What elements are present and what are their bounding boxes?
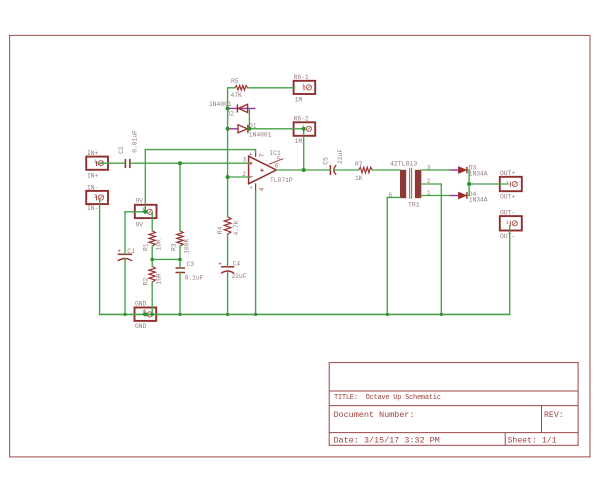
node D1 right junction xyxy=(247,127,251,131)
connector IN- xyxy=(86,184,108,212)
wire D3 pin segment (magenta) xyxy=(450,169,458,171)
node rail R2 junction xyxy=(151,313,154,316)
svg-text:IN+: IN+ xyxy=(87,173,99,180)
wire node to OUT+ xyxy=(469,183,508,185)
wire 9V up to V+ corner xyxy=(144,150,146,212)
connector IN+ xyxy=(86,150,108,180)
svg-text:C3: C3 xyxy=(187,261,195,268)
svg-text:0.1uF: 0.1uF xyxy=(185,275,204,282)
svg-text:OUT-: OUT- xyxy=(500,233,515,240)
svg-text:9V: 9V xyxy=(136,198,144,205)
svg-text:R6-2: R6-2 xyxy=(294,115,309,122)
node R3/C3 junction xyxy=(178,258,182,262)
svg-text:4.7K: 4.7K xyxy=(233,220,240,235)
svg-text:TR1: TR1 xyxy=(408,202,420,209)
svg-text:6: 6 xyxy=(275,163,279,170)
wire divider node horizontal xyxy=(152,258,180,260)
node D1 left junction xyxy=(226,127,230,131)
connector 9V xyxy=(135,198,157,229)
svg-text:GND: GND xyxy=(135,301,147,308)
wire R1 bottom to R2 top xyxy=(151,246,153,266)
wire ground rail xyxy=(100,313,510,315)
svg-text:22uF: 22uF xyxy=(232,273,247,280)
svg-text:TL071P: TL071P xyxy=(270,177,293,184)
wire IN- down to ground rail xyxy=(99,199,101,315)
node rail center-tap junction xyxy=(440,313,443,316)
svg-text:47K: 47K xyxy=(231,92,243,99)
node rail C1 junction xyxy=(123,313,126,316)
svg-text:IN+: IN+ xyxy=(87,150,99,157)
svg-text:4: 4 xyxy=(258,187,265,191)
wire R3 bottom to node xyxy=(179,246,181,268)
wire D1 pin segment (magenta) xyxy=(229,128,238,130)
wire transformer pin3 to D3 xyxy=(421,169,450,171)
node D3/D4/OUT+ junction xyxy=(467,182,471,186)
wire D1 to R6-2 xyxy=(249,128,304,130)
svg-text:R3: R3 xyxy=(170,243,177,251)
node rail C4 junction xyxy=(226,313,229,316)
svg-text:Document Number:: Document Number: xyxy=(334,410,415,420)
wire IN+ to C2 xyxy=(98,162,125,164)
wire V+ horizontal to op-amp pin7 xyxy=(145,150,255,153)
capacitor C4 22uF (polarized) xyxy=(218,260,247,280)
wire transformer center tap to rail xyxy=(421,184,441,314)
wire C4 bottom to rail xyxy=(227,272,229,314)
wire transformer pin1 to D4 xyxy=(421,195,450,197)
svg-text:10K: 10K xyxy=(156,273,163,285)
wire C1 top xyxy=(124,212,126,254)
wire C3 bottom to ground rail xyxy=(179,273,181,315)
wire 9V pin to C1 branch xyxy=(125,211,145,213)
node pin3/R3 junction xyxy=(178,161,182,165)
svg-text:Sheet: 1/1: Sheet: 1/1 xyxy=(508,436,557,446)
svg-text:C1: C1 xyxy=(127,248,135,255)
svg-text:R4: R4 xyxy=(217,226,224,234)
svg-text:C4: C4 xyxy=(233,260,241,267)
node rail TR pin6 junction xyxy=(386,313,389,316)
transformer TR1 42TL013 xyxy=(389,161,431,209)
wire 9V pin to R1 top xyxy=(151,212,153,231)
node rail C3 junction xyxy=(178,313,181,316)
svg-text:R2: R2 xyxy=(143,277,150,285)
svg-text:OUT-: OUT- xyxy=(500,209,515,216)
svg-text:1N34A: 1N34A xyxy=(469,171,488,178)
capacitor C3 0.1uF xyxy=(176,261,204,282)
node D2 left junction xyxy=(226,106,230,110)
svg-text:IC1: IC1 xyxy=(269,150,281,157)
svg-text:IN-: IN- xyxy=(87,184,98,191)
resistor R4 4.7K xyxy=(217,217,240,236)
wire R5 to R6-1 xyxy=(248,87,295,89)
svg-text:+: + xyxy=(117,248,121,255)
svg-text:100K: 100K xyxy=(184,238,191,253)
svg-text:5: 5 xyxy=(277,156,281,163)
wire transformer pin6 to rail xyxy=(387,197,400,314)
op-amp U1 TL071P xyxy=(242,150,292,193)
node rail V- junction xyxy=(254,313,257,316)
connector OUT+ xyxy=(500,170,522,201)
connector GND xyxy=(135,301,157,331)
node 9V pin junction xyxy=(143,210,147,214)
svg-text:*: * xyxy=(250,186,253,193)
svg-text:IN-: IN- xyxy=(87,205,98,212)
node op-amp pin2 junction xyxy=(226,175,230,179)
wire op-amp V- to rail xyxy=(255,191,257,314)
wire D2 pin segment (magenta) xyxy=(229,107,255,109)
svg-text:0.01uF: 0.01uF xyxy=(132,130,139,153)
svg-text:1N34A: 1N34A xyxy=(469,197,488,204)
svg-text:42TL013: 42TL013 xyxy=(390,161,417,168)
wire D2 right link down to D1 xyxy=(248,108,250,128)
wire C5 to R7 xyxy=(334,169,358,171)
svg-text:+: + xyxy=(249,151,252,158)
resistor R5 47K xyxy=(231,78,248,99)
node R6-2 pin junction xyxy=(302,127,306,131)
connector R6-2 xyxy=(294,115,316,145)
svg-text:C5: C5 xyxy=(323,157,330,165)
resistor R2 10K xyxy=(143,266,163,285)
wire C1 bottom to rail xyxy=(124,259,126,315)
svg-text:Date: 3/15/17 3:32 PM: Date: 3/15/17 3:32 PM xyxy=(334,436,440,446)
svg-text:7: 7 xyxy=(258,153,265,157)
node R1/R2 divider junction xyxy=(150,258,154,262)
capacitor C1 (polarized) xyxy=(117,248,135,261)
wire main left vertical R5/D2/D1/pin2/R4 xyxy=(228,88,235,217)
svg-text:1M: 1M xyxy=(295,138,303,145)
title block box xyxy=(329,363,578,446)
svg-text:OUT+: OUT+ xyxy=(500,194,515,201)
diode D4 1N34A (pointing right) xyxy=(459,191,488,204)
diode D2 1N4001 (pointing left) xyxy=(209,101,248,117)
svg-text:TITLE: Octave Up Schematic: TITLE: Octave Up Schematic xyxy=(334,394,441,402)
svg-text:OUT+: OUT+ xyxy=(500,170,515,177)
svg-text:1K: 1K xyxy=(355,175,363,182)
resistor R1 10K xyxy=(142,231,162,251)
svg-text:C2: C2 xyxy=(118,146,125,154)
wire D4 pin segment (magenta) xyxy=(450,195,458,197)
wire D3 out down to D4 out xyxy=(468,170,470,196)
svg-text:REV:: REV: xyxy=(544,411,564,420)
capacitor C5 22uF (polarized) xyxy=(323,149,345,175)
svg-text:1M: 1M xyxy=(295,97,303,104)
diode D3 1N34A (pointing right) xyxy=(459,165,488,178)
svg-text:1N4001: 1N4001 xyxy=(249,131,272,138)
wire R2 bottom to GND pin xyxy=(151,282,153,314)
svg-text:22uF: 22uF xyxy=(337,149,344,164)
node GND pin junction xyxy=(143,312,147,316)
wire R7 to transformer primary xyxy=(372,169,400,171)
resistor R3 100K xyxy=(170,231,190,254)
svg-text:R5: R5 xyxy=(231,78,239,85)
capacitor C2 0.01uF xyxy=(118,130,139,168)
svg-text:GND: GND xyxy=(135,323,147,330)
resistor R7 1K xyxy=(355,161,372,182)
wire op-amp output to C5 xyxy=(276,169,330,171)
connector OUT- xyxy=(500,209,522,240)
svg-text:+: + xyxy=(218,261,222,268)
svg-text:R6-1: R6-1 xyxy=(294,74,309,81)
svg-text:9V: 9V xyxy=(136,222,144,229)
diode D1 1N4001 (pointing right) xyxy=(238,122,272,138)
wire OUT- down to rail xyxy=(509,226,511,314)
svg-text:R1: R1 xyxy=(142,243,149,251)
wire R4 bottom to C4 xyxy=(227,234,229,266)
svg-text:R7: R7 xyxy=(355,161,363,168)
node op-amp output junction xyxy=(302,168,306,172)
wire op-amp pin2 stub xyxy=(228,176,249,178)
wire node to R3 top xyxy=(179,163,181,231)
connector R6-1 xyxy=(294,74,316,104)
svg-text:10K: 10K xyxy=(156,239,163,251)
wire C2 to op-amp pin3 xyxy=(131,162,249,164)
wire R6-2 pin down to output node xyxy=(303,129,305,170)
